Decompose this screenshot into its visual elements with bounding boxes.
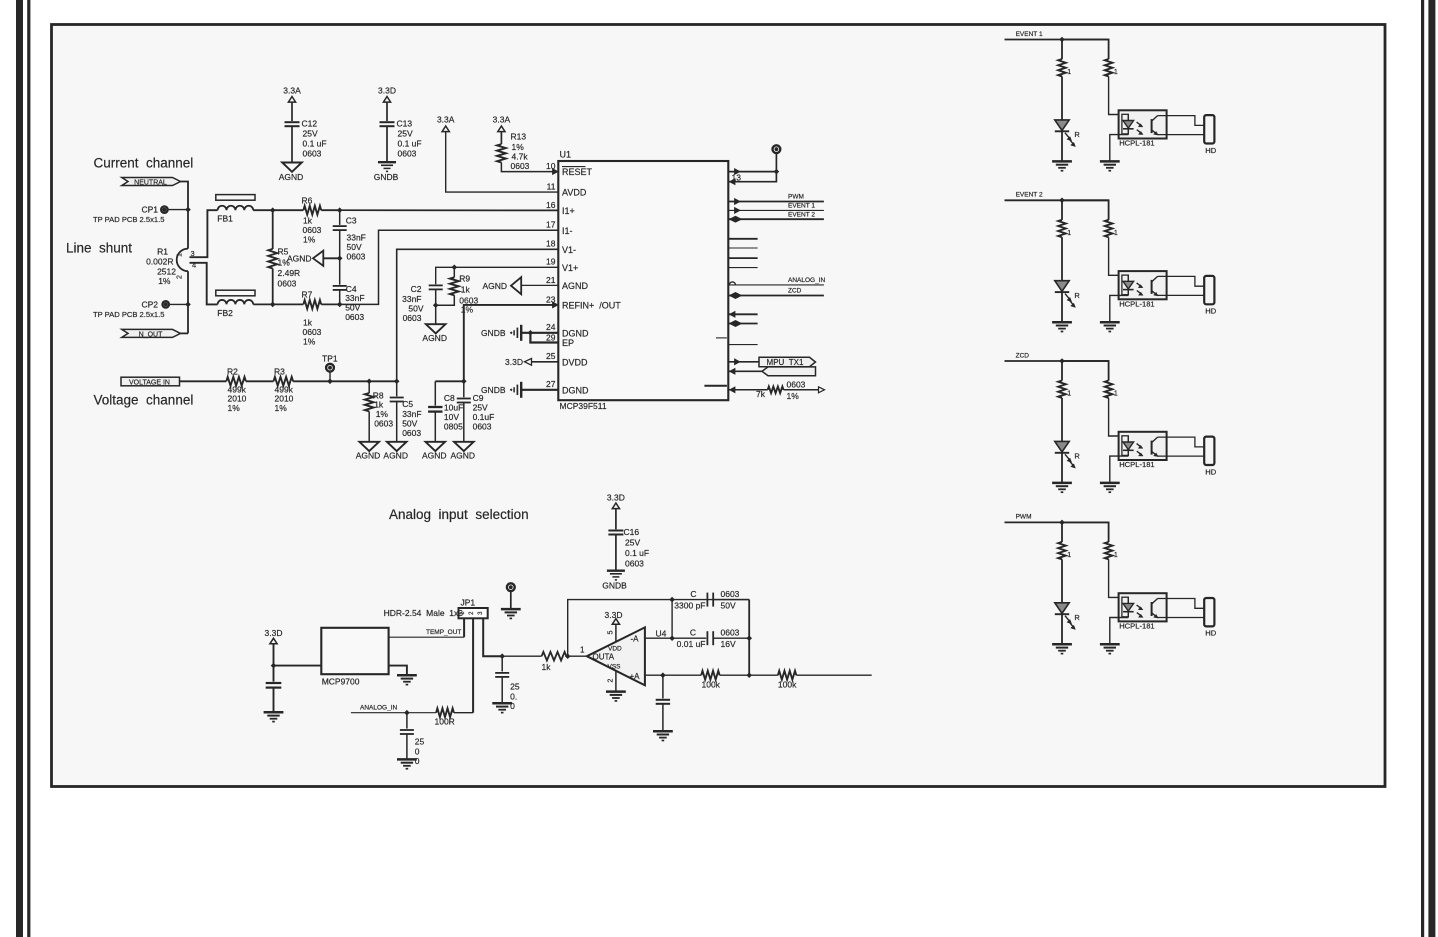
net EVENT 2 xyxy=(730,216,742,222)
resistor 100R xyxy=(436,708,454,717)
wire xyxy=(749,674,778,676)
node right vertical top xyxy=(746,635,752,641)
svg-text:1: 1 xyxy=(1114,69,1118,76)
svg-text:PWM: PWM xyxy=(1016,514,1032,521)
svg-text:FB1: FB1 xyxy=(217,214,233,224)
node CP2/N_OUT junction xyxy=(185,302,191,308)
ground (ZCD opto) xyxy=(1100,482,1120,485)
ground AGND (R8) xyxy=(359,442,379,451)
wire (collector) xyxy=(1158,276,1205,286)
wire xyxy=(253,303,273,305)
svg-text:0603: 0603 xyxy=(473,422,492,432)
wire (cathode) xyxy=(1110,135,1129,162)
svg-text:PWM: PWM xyxy=(788,194,804,201)
svg-text:3.3A: 3.3A xyxy=(493,115,511,125)
svg-text:GNDB: GNDB xyxy=(481,328,506,338)
wire (VSS) xyxy=(615,671,617,692)
wire xyxy=(796,674,871,676)
wire (cathode) xyxy=(1110,456,1129,483)
svg-text:EVENT 2: EVENT 2 xyxy=(788,211,815,218)
resistor (ZCD LED) xyxy=(1058,381,1066,398)
svg-text:Line shunt: Line shunt xyxy=(66,241,132,256)
capacitor C 0.01uF xyxy=(706,631,708,645)
ground (EVENT 1 LED) xyxy=(1052,160,1072,163)
node JP1 pin3 junction xyxy=(499,653,505,659)
optocoupler HCPL-181 (PWM) xyxy=(1119,593,1167,621)
ground (+A cap) xyxy=(653,730,673,733)
IC U1 MCP39F511 body xyxy=(558,161,728,400)
ground (test point) xyxy=(501,608,521,611)
svg-text:C16: C16 xyxy=(624,527,640,537)
svg-text:HCPL-181: HCPL-181 xyxy=(1119,299,1154,308)
svg-text:0603: 0603 xyxy=(347,252,366,262)
svg-text:16: 16 xyxy=(546,200,556,210)
pin stub xyxy=(728,267,757,269)
test point (U1) xyxy=(775,153,777,172)
ground (EVENT 2 opto) xyxy=(1100,321,1120,324)
svg-text:AVDD: AVDD xyxy=(562,188,587,198)
pin stub xyxy=(730,311,736,317)
svg-text:CP1: CP1 xyxy=(141,205,158,215)
ground (EVENT 2 LED) xyxy=(1052,321,1072,324)
node 3.3D/MCP9700 junction xyxy=(271,663,277,669)
svg-text:C13: C13 xyxy=(397,119,413,129)
resistor R5 xyxy=(272,210,274,249)
svg-text:HCPL-181: HCPL-181 xyxy=(1119,621,1154,630)
node CP1/NEUTRAL junction xyxy=(185,207,191,213)
svg-text:R7: R7 xyxy=(302,290,313,300)
ground (3.3D bypass) xyxy=(264,711,284,714)
wire (MCP9700 gnd) xyxy=(389,666,407,675)
optocoupler HCPL-181 (EVENT 1) xyxy=(1119,110,1167,138)
svg-text:50V: 50V xyxy=(721,601,736,611)
node R9/V1+ junction xyxy=(452,265,458,271)
connector HD (EVENT 1) xyxy=(1204,115,1214,143)
svg-text:17: 17 xyxy=(546,220,556,230)
svg-text:AGND: AGND xyxy=(279,172,304,182)
svg-text:AGND: AGND xyxy=(356,451,381,461)
svg-text:ANALOG_IN: ANALOG_IN xyxy=(788,277,826,284)
wire xyxy=(435,305,437,324)
node C2/R9 junction xyxy=(433,302,439,308)
svg-text:MCP39F511: MCP39F511 xyxy=(560,401,607,411)
pin 12 (to test point) xyxy=(735,169,741,175)
IC MCP9700 body xyxy=(321,628,388,674)
svg-text:HCPL-181: HCPL-181 xyxy=(1119,460,1154,469)
wire xyxy=(1061,292,1063,322)
svg-text:2: 2 xyxy=(608,678,615,682)
svg-text:+A: +A xyxy=(630,672,641,681)
svg-text:10uF: 10uF xyxy=(444,403,463,413)
node TP1 junction xyxy=(327,379,333,385)
node C5 junction xyxy=(394,379,400,385)
svg-text:U4: U4 xyxy=(656,628,667,638)
net EVENT 1 (opto line) xyxy=(1005,39,1109,41)
svg-text:DGND: DGND xyxy=(562,328,589,338)
svg-text:ANALOG_IN: ANALOG_IN xyxy=(360,705,398,712)
wire xyxy=(1109,237,1129,275)
svg-text:R13: R13 xyxy=(511,132,527,142)
svg-text:R: R xyxy=(1074,452,1080,461)
svg-text:VDD: VDD xyxy=(608,645,622,652)
wire (collector) xyxy=(1158,116,1205,126)
wire xyxy=(521,389,558,391)
capacitor (3.3D bypass) xyxy=(273,666,275,682)
node R7/C4 junction xyxy=(337,302,343,308)
svg-text:1%: 1% xyxy=(787,391,800,401)
resistor (EVENT 2 opto) xyxy=(1105,220,1113,237)
svg-text:GNDB: GNDB xyxy=(602,581,627,591)
svg-text:I1-: I1- xyxy=(562,226,573,236)
svg-text:33nF: 33nF xyxy=(402,294,421,304)
svg-text:100k: 100k xyxy=(702,680,721,690)
pin stub xyxy=(728,344,757,346)
ground AGND (C5) xyxy=(387,442,407,451)
wire (V1+ net) xyxy=(436,267,559,284)
wire xyxy=(454,712,473,714)
wire xyxy=(1062,200,1109,220)
svg-text:2512: 2512 xyxy=(157,267,176,277)
svg-text:EVENT 1: EVENT 1 xyxy=(788,203,815,210)
page frame left thick bar xyxy=(16,0,23,937)
wire xyxy=(187,271,189,333)
wire xyxy=(1061,614,1063,644)
svg-text:0.002R: 0.002R xyxy=(146,257,173,267)
wire xyxy=(1061,398,1063,442)
capacitor C8 xyxy=(434,381,436,405)
svg-text:EVENT 2: EVENT 2 xyxy=(1016,192,1043,199)
capacitor C 3300pF xyxy=(706,593,708,607)
svg-text:0603: 0603 xyxy=(403,313,422,323)
test pad CP2 xyxy=(163,301,169,307)
svg-text:JP1: JP1 xyxy=(461,598,476,608)
svg-text:AGND: AGND xyxy=(287,253,312,263)
wire xyxy=(246,380,274,382)
net flag MPU_TX1 xyxy=(735,359,741,365)
svg-text:25: 25 xyxy=(546,351,556,361)
wire xyxy=(446,132,559,193)
svg-text:0603: 0603 xyxy=(303,225,322,235)
svg-text:U1: U1 xyxy=(560,150,572,160)
wire xyxy=(510,591,512,609)
svg-text:11: 11 xyxy=(547,181,556,191)
resistor (EVENT 1 LED) xyxy=(1058,59,1066,76)
wire (emitter) xyxy=(1158,294,1205,296)
svg-text:0603: 0603 xyxy=(511,161,530,171)
EP pad mark xyxy=(716,337,727,339)
ground AGND (C9) xyxy=(454,442,474,451)
svg-text:21: 21 xyxy=(546,275,556,285)
svg-text:OUTA: OUTA xyxy=(593,652,615,661)
wire (I1- net) xyxy=(340,230,559,304)
capacitor C9 xyxy=(463,381,465,397)
ferrite bead FB1 xyxy=(216,195,255,201)
svg-text:1%: 1% xyxy=(275,403,288,413)
wire (REFIN+ net) xyxy=(464,305,553,381)
net flag NEUTRAL xyxy=(122,178,181,186)
svg-text:VSS: VSS xyxy=(608,664,622,671)
svg-text:HD: HD xyxy=(1205,629,1216,638)
svg-text:AGND: AGND xyxy=(422,333,447,343)
ground (ANALOG_IN cap) xyxy=(397,758,417,761)
node FB1/R5 junction xyxy=(270,207,276,213)
resistor 100k (2) xyxy=(778,671,796,680)
svg-text:VOLTAGE IN: VOLTAGE IN xyxy=(129,379,170,386)
node FB2/R5 junction xyxy=(270,302,276,308)
svg-text:1k: 1k xyxy=(374,400,384,410)
wire (JP1 pin1) xyxy=(463,618,465,637)
capacitor (+A) xyxy=(662,675,664,698)
ground GNDB (C16) xyxy=(607,570,625,572)
svg-text:0603: 0603 xyxy=(303,327,322,337)
svg-text:0603: 0603 xyxy=(303,149,322,159)
svg-text:ZCD: ZCD xyxy=(788,288,802,295)
svg-text:GNDB: GNDB xyxy=(374,172,399,182)
svg-text:0603: 0603 xyxy=(398,149,417,159)
ground (PWM opto) xyxy=(1100,643,1120,646)
svg-text:1%: 1% xyxy=(228,403,241,413)
node +A/feedback junction xyxy=(746,672,752,678)
svg-text:R3: R3 xyxy=(274,366,285,376)
wire (right vertical) xyxy=(748,600,750,676)
ground (MCP9700) xyxy=(397,674,417,677)
svg-text:C8: C8 xyxy=(444,393,455,403)
wire xyxy=(291,126,293,162)
op-amp U4 body xyxy=(587,627,645,685)
svg-text:TEMP_OUT: TEMP_OUT xyxy=(426,629,461,636)
node R6/C3 junction xyxy=(337,207,343,213)
net flag VOLTAGE IN xyxy=(121,377,180,386)
resistor (EVENT 2 LED) xyxy=(1058,220,1066,237)
svg-text:0.1 uF: 0.1 uF xyxy=(303,139,327,149)
svg-text:N_OUT: N_OUT xyxy=(139,331,163,338)
svg-text:27: 27 xyxy=(546,379,556,389)
wire xyxy=(500,132,502,144)
svg-text:0.1 uF: 0.1 uF xyxy=(398,139,422,149)
pin stub xyxy=(728,257,757,259)
svg-text:3.3A: 3.3A xyxy=(437,115,455,125)
svg-text:MPU_TX1: MPU_TX1 xyxy=(767,358,804,367)
node +A cap junction xyxy=(660,672,666,678)
wire xyxy=(502,655,541,657)
resistor 100k (1) xyxy=(701,671,719,680)
page frame right thin bar xyxy=(1421,0,1424,937)
svg-text:24: 24 xyxy=(546,322,556,332)
capacitor C16 xyxy=(608,530,623,532)
wire xyxy=(615,624,617,642)
capacitor (JP1 pin3) xyxy=(501,656,503,671)
svg-text:C3: C3 xyxy=(346,216,357,226)
wire xyxy=(1061,361,1063,381)
svg-text:50V: 50V xyxy=(408,304,423,314)
wire xyxy=(386,126,388,162)
ground (ZCD LED) xyxy=(1052,482,1072,485)
svg-text:0603: 0603 xyxy=(787,379,806,389)
svg-text:50V: 50V xyxy=(402,419,417,429)
svg-text:2: 2 xyxy=(177,275,184,279)
page frame right thick bar xyxy=(1428,0,1435,937)
svg-text:1: 1 xyxy=(1067,391,1071,398)
wire xyxy=(713,637,749,639)
wire xyxy=(566,655,587,657)
ground (JP1 pin3 cap) xyxy=(492,702,512,705)
svg-text:AGND: AGND xyxy=(422,451,447,461)
node DGND/EP junction xyxy=(528,330,534,336)
net ANALOG_IN (analog section) xyxy=(351,712,436,714)
resistor R2 xyxy=(226,377,246,386)
svg-text:1%: 1% xyxy=(303,235,316,245)
pad mark xyxy=(704,385,727,387)
svg-text:EVENT 1: EVENT 1 xyxy=(1016,31,1043,38)
svg-text:3.3D: 3.3D xyxy=(605,610,623,620)
node ZCD junction xyxy=(1059,358,1065,364)
svg-text:C: C xyxy=(690,628,696,638)
svg-text:25V: 25V xyxy=(625,537,640,547)
svg-text:V1-: V1- xyxy=(562,245,576,255)
wire xyxy=(1109,76,1129,114)
node feedback top junction xyxy=(669,597,675,603)
wire xyxy=(1062,40,1109,60)
svg-text:1: 1 xyxy=(1114,552,1118,559)
wire (emitter) xyxy=(1158,134,1205,136)
resistor (PWM opto) xyxy=(1105,542,1113,559)
svg-text:1%: 1% xyxy=(512,142,525,152)
LED (EVENT 1) xyxy=(1055,120,1069,131)
svg-text:FB2: FB2 xyxy=(217,308,233,318)
svg-text:AGND: AGND xyxy=(482,281,507,291)
svg-text:R9: R9 xyxy=(459,274,470,284)
node AGND/C3/C4 junction xyxy=(337,256,343,262)
ground (EVENT 1 opto) xyxy=(1100,160,1120,163)
capacitor (ANALOG_IN) xyxy=(406,713,408,729)
test point (JP1) xyxy=(507,583,515,591)
svg-text:50V: 50V xyxy=(347,242,362,252)
svg-text:7k: 7k xyxy=(756,389,766,399)
svg-text:R2: R2 xyxy=(227,366,238,376)
LED (EVENT 2) xyxy=(1055,281,1069,292)
svg-text:0603: 0603 xyxy=(345,312,364,322)
wire xyxy=(720,674,750,676)
net EVENT 1 xyxy=(735,208,741,214)
svg-text:33nF: 33nF xyxy=(345,293,364,303)
svg-text:HD: HD xyxy=(1205,146,1216,155)
optocoupler HCPL-181 (EVENT 2) xyxy=(1119,271,1167,299)
svg-text:DGND: DGND xyxy=(562,385,589,395)
wire xyxy=(671,600,673,639)
svg-text:R: R xyxy=(1074,130,1080,139)
svg-text:C: C xyxy=(690,589,696,599)
resistor R7 xyxy=(273,303,304,305)
resistor 7k (UART) xyxy=(730,387,736,393)
svg-text:1%: 1% xyxy=(461,305,474,315)
svg-text:ZCD: ZCD xyxy=(1016,352,1030,359)
svg-text:AGND: AGND xyxy=(451,451,476,461)
svg-text:R: R xyxy=(1074,291,1080,300)
svg-text:0805: 0805 xyxy=(444,422,463,432)
svg-text:1k: 1k xyxy=(461,285,471,295)
svg-text:5: 5 xyxy=(608,630,615,634)
wire (cathode) xyxy=(1110,295,1129,322)
svg-text:1k: 1k xyxy=(542,662,552,672)
net PWM (opto line) xyxy=(1005,521,1109,523)
wire xyxy=(181,182,189,249)
capacitor C3 xyxy=(339,210,341,225)
ground AGND (C12) xyxy=(282,163,302,172)
node R8 junction xyxy=(366,379,372,385)
svg-text:RESET: RESET xyxy=(562,167,593,177)
wire xyxy=(274,665,322,667)
wire (emitter) xyxy=(1158,617,1205,619)
svg-text:-A: -A xyxy=(631,635,640,644)
net ANALOG_IN (U1) xyxy=(729,282,735,285)
svg-text:16V: 16V xyxy=(721,639,736,649)
resistor R8 xyxy=(368,381,370,393)
svg-text:1%: 1% xyxy=(158,276,171,286)
svg-text:HD: HD xyxy=(1205,467,1216,476)
wire (collector) xyxy=(1158,437,1205,447)
svg-text:3.3D: 3.3D xyxy=(607,493,625,503)
schematic sheet border xyxy=(52,25,1386,787)
wire (+A) xyxy=(645,674,701,676)
wire xyxy=(1062,522,1109,542)
svg-text:33nF: 33nF xyxy=(402,409,421,419)
wire xyxy=(521,284,558,286)
connector HD (EVENT 2) xyxy=(1204,276,1214,304)
wire xyxy=(1061,76,1063,120)
svg-text:AGND: AGND xyxy=(383,451,408,461)
svg-text:HCPL-181: HCPL-181 xyxy=(1119,139,1154,148)
resistor R6 xyxy=(273,209,304,211)
wire (emitter) xyxy=(1158,455,1205,457)
net flag N_OUT xyxy=(122,329,181,337)
page frame left thin bar xyxy=(27,0,30,937)
ground (PWM LED) xyxy=(1052,643,1072,646)
svg-text:R: R xyxy=(1074,613,1080,622)
svg-text:18: 18 xyxy=(546,239,556,249)
svg-text:25: 25 xyxy=(415,737,425,747)
svg-text:10: 10 xyxy=(546,161,556,171)
node feedback junction xyxy=(565,653,571,659)
wire (V1- net) xyxy=(397,249,559,381)
svg-text:23: 23 xyxy=(546,294,556,304)
wire (I1+ net) xyxy=(340,209,559,211)
svg-text:Voltage channel: Voltage channel xyxy=(94,393,194,408)
wire (shunt pin 3 to FB1) xyxy=(190,210,218,257)
svg-text:0.: 0. xyxy=(510,692,517,702)
svg-text:3.3D: 3.3D xyxy=(265,628,283,638)
wire xyxy=(1061,453,1063,483)
svg-text:1k: 1k xyxy=(303,216,313,226)
wire xyxy=(1061,131,1063,161)
svg-text:1%: 1% xyxy=(303,337,316,347)
svg-text:C2: C2 xyxy=(411,284,422,294)
svg-text:I1+: I1+ xyxy=(562,206,575,216)
pin stub xyxy=(728,238,757,240)
resistor R3 xyxy=(274,377,294,386)
node EVENT 1 junction xyxy=(1059,37,1065,43)
wire xyxy=(273,644,275,666)
svg-text:1: 1 xyxy=(177,253,184,257)
pin 23 REFIN+ /OUT xyxy=(553,302,559,308)
wire xyxy=(1109,398,1129,436)
svg-text:1: 1 xyxy=(1114,391,1118,398)
ground (U4 VSS) xyxy=(606,690,626,693)
svg-text:TP PAD PCB 2.5x1.5: TP PAD PCB 2.5x1.5 xyxy=(93,310,164,319)
wire xyxy=(501,163,552,172)
svg-text:0603: 0603 xyxy=(278,279,297,289)
wire xyxy=(180,380,227,382)
connector HD (ZCD) xyxy=(1204,437,1214,465)
